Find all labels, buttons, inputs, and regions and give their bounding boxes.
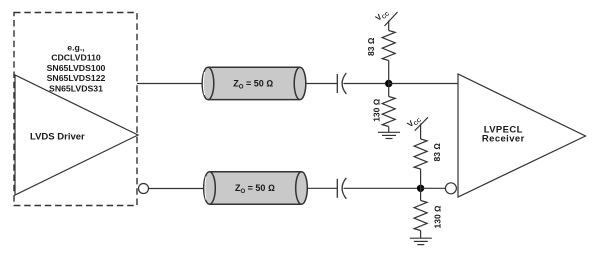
svg-text:83 Ω: 83 Ω [366,37,376,56]
svg-text:e.g.,: e.g., [67,43,84,53]
transmission line T2: Zo = 50 ohm (bottom) [204,172,308,204]
svg-text:SN65LVDS31: SN65LVDS31 [49,83,103,93]
inverting input bubble at receiver [445,183,456,194]
wire: node B to R4 [420,188,422,200]
dashed box (LVDS driver IC boundary) [14,13,137,206]
transmission line T1: Zo = 50 ohm (top) [202,67,306,99]
wire: driver top output to top transmission line [137,83,203,85]
svg-text:130 Ω: 130 Ω [433,205,443,229]
ground symbol (top network) [378,132,400,138]
svg-text:LVDS Driver: LVDS Driver [30,131,85,142]
resistor R3: 83 ohm (bottom, to Vcc) [414,139,427,169]
svg-text:SN65LVDS100: SN65LVDS100 [47,63,106,73]
svg-text:130 Ω: 130 Ω [372,98,382,122]
wire: node B to receiver inverting input bubble [421,187,446,189]
wire: driver bottom output to bottom transmission line [149,188,205,190]
resistor R1: 83 ohm (top, to Vcc) [382,31,395,61]
LVPECL receiver triangle U2 [458,74,586,197]
Vcc supply symbol (top) [374,7,398,30]
wire: capacitor C2 to node B [344,187,421,189]
Vcc supply symbol (bottom) [406,114,428,139]
label: LVPECL Receiver [482,125,525,145]
label: example part numbers [47,43,106,94]
capacitor C2 (AC coupling, bottom) [337,178,346,199]
inverting output bubble at driver [139,184,149,194]
svg-text:SN65LVDS122: SN65LVDS122 [47,73,106,83]
resistor R4: 130 ohm (bottom, to ground) [414,201,427,231]
node B: bottom termination junction [417,185,424,192]
wire: bottom transmission line to capacitor C2 [307,187,337,189]
wire: R3 to node B [420,169,422,188]
wire: top transmission line to capacitor C1 [306,83,338,85]
wire: capacitor C1 to node A [344,83,389,85]
node A: top termination junction [385,80,392,87]
LVDS driver triangle U1 [15,75,138,195]
ground symbol (bottom network) [410,238,432,244]
svg-text:83 Ω: 83 Ω [432,143,442,162]
wire: R4 to ground [420,231,422,239]
wire: node A to R2 [388,84,390,97]
svg-text:CDCLVD110: CDCLVD110 [51,53,101,63]
wire: R2 to ground [388,127,390,133]
resistor R2: 130 ohm (top, to ground) [382,97,395,127]
wire: node A to receiver non-inverting input [389,83,458,85]
svg-text:Receiver: Receiver [482,133,525,144]
capacitor C1 (AC coupling, top) [337,73,346,94]
wire: R1 to node A [388,61,390,84]
